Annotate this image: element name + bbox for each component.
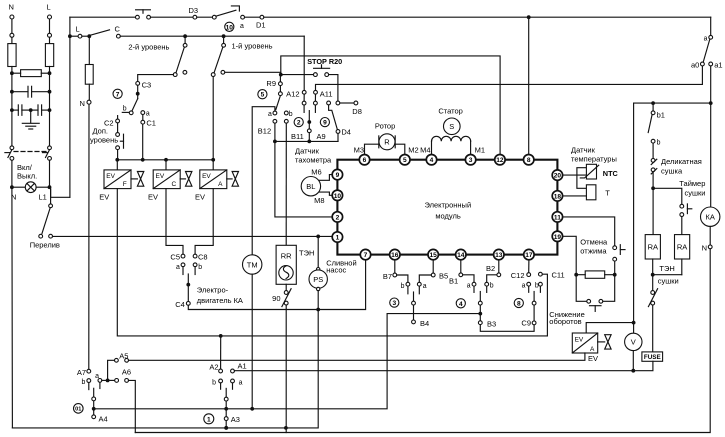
svg-text:A7: A7 xyxy=(77,368,86,377)
wire L riser xyxy=(69,17,71,197)
contact D3 xyxy=(212,15,216,19)
svg-text:А6: А6 xyxy=(122,368,131,377)
pin 7 xyxy=(360,249,370,259)
svg-text:A11: A11 xyxy=(320,90,333,99)
wire pin20 xyxy=(563,174,587,176)
svg-text:M6: M6 xyxy=(311,168,321,177)
terminal N2 xyxy=(10,33,14,37)
svg-text:сушки: сушки xyxy=(658,277,679,286)
svg-text:3: 3 xyxy=(469,157,473,164)
common A3 xyxy=(225,388,227,428)
svg-text:R9: R9 xyxy=(266,79,276,88)
switch id 1 xyxy=(204,414,214,424)
svg-text:b: b xyxy=(212,379,216,386)
wire bus 141 xyxy=(275,140,338,142)
contact L-C blade xyxy=(87,34,91,38)
node a xyxy=(241,15,245,19)
wire pin8 riser xyxy=(528,17,530,154)
svg-text:STOP R20: STOP R20 xyxy=(307,57,342,66)
svg-text:FUSE: FUSE xyxy=(644,354,661,361)
wire common 2 xyxy=(308,111,310,129)
svg-text:6: 6 xyxy=(363,157,367,164)
svg-text:A2: A2 xyxy=(209,363,218,372)
node C1 xyxy=(142,115,144,121)
wire top right corner down xyxy=(710,17,712,35)
pin 6 xyxy=(359,155,369,165)
thermostat T xyxy=(586,185,596,200)
svg-text:EV: EV xyxy=(202,173,211,180)
svg-text:Отмена: Отмена xyxy=(580,237,608,246)
svg-text:L1: L1 xyxy=(39,193,47,202)
svg-text:RA: RA xyxy=(677,243,687,252)
svg-text:N: N xyxy=(80,99,85,108)
svg-text:2-й уровень: 2-й уровень xyxy=(128,42,169,51)
switch id 10 xyxy=(225,22,234,31)
svg-text:A9: A9 xyxy=(317,132,326,141)
svg-text:отжима: отжима xyxy=(580,247,607,256)
wire L column xyxy=(49,67,51,146)
junction stop xyxy=(279,73,283,77)
switch overflow contacts xyxy=(39,234,43,238)
junction xyxy=(48,71,52,75)
svg-text:сушка: сушка xyxy=(661,167,683,176)
svg-text:9: 9 xyxy=(323,120,327,127)
pin 12 xyxy=(495,155,505,165)
svg-text:Деликатная: Деликатная xyxy=(661,157,702,166)
junction pin8 riser xyxy=(527,15,531,19)
wire L1 to L riser xyxy=(51,189,70,197)
wire level2 to C3 xyxy=(138,75,174,82)
EV valve group xyxy=(99,158,547,336)
svg-text:C: C xyxy=(115,25,121,34)
wire A6 to bottom bus xyxy=(129,380,136,432)
svg-text:3: 3 xyxy=(392,300,396,307)
pin 16 xyxy=(390,249,400,259)
svg-text:A: A xyxy=(218,181,223,188)
svg-text:N: N xyxy=(702,243,707,252)
svg-text:20: 20 xyxy=(554,173,562,180)
rotor xyxy=(354,121,419,154)
svg-text:B1: B1 xyxy=(449,277,458,286)
wire level1 riser to EVA xyxy=(212,77,214,160)
wire top line right xyxy=(264,16,711,18)
svg-text:4: 4 xyxy=(430,157,434,164)
svg-text:01: 01 xyxy=(75,407,81,413)
wire pin12 riser xyxy=(281,56,500,155)
lamp power xyxy=(12,186,26,188)
svg-text:T: T xyxy=(605,189,610,198)
node b1 xyxy=(652,105,654,111)
resistor R spin xyxy=(585,271,605,278)
switch power DPST pole1 xyxy=(10,146,14,150)
svg-text:B11: B11 xyxy=(291,132,304,141)
junction xyxy=(48,90,52,94)
pin 8 xyxy=(524,155,534,165)
svg-text:a1: a1 xyxy=(714,61,722,70)
svg-text:RA: RA xyxy=(648,243,658,252)
svg-text:14: 14 xyxy=(457,252,465,259)
STOP R20 and selector block xyxy=(252,36,702,255)
valve EV A xyxy=(212,160,214,170)
wire C11 riser xyxy=(542,274,547,336)
switch id 01 xyxy=(74,404,84,414)
svg-text:F: F xyxy=(123,181,127,188)
junction line B dots xyxy=(224,426,228,430)
svg-text:b1: b1 xyxy=(657,110,665,119)
wire xyxy=(151,16,194,18)
wire pole1 down xyxy=(11,160,13,187)
svg-text:b: b xyxy=(657,140,661,147)
wire N return left side down xyxy=(11,189,14,428)
wire L down xyxy=(49,37,51,43)
wire N down right side xyxy=(135,249,710,433)
svg-text:b: b xyxy=(490,283,494,290)
junction xyxy=(68,34,72,38)
svg-text:M2: M2 xyxy=(408,145,418,154)
wire a-bottom to bus xyxy=(274,123,276,141)
node b xyxy=(651,139,655,143)
mains input filter xyxy=(5,3,332,428)
terminal xyxy=(336,101,340,105)
svg-text:9: 9 xyxy=(336,172,340,179)
svg-text:b: b xyxy=(123,106,127,113)
terminal L xyxy=(48,15,52,19)
wire KA to N xyxy=(709,226,711,245)
svg-text:EV: EV xyxy=(575,336,584,343)
junction xyxy=(10,90,14,94)
svg-text:M8: M8 xyxy=(314,196,324,205)
svg-text:КА: КА xyxy=(706,213,715,222)
wire N column xyxy=(11,67,13,146)
heater RR xyxy=(276,245,296,284)
svg-text:C: C xyxy=(172,181,177,188)
svg-text:8: 8 xyxy=(527,157,531,164)
wire C4 to pin7 xyxy=(188,260,365,310)
pin 15 xyxy=(428,249,438,259)
wire resistor left xyxy=(12,72,21,74)
svg-text:a: a xyxy=(522,283,526,290)
wire EVF return xyxy=(117,189,547,336)
pin 14 xyxy=(456,249,466,259)
svg-text:температуры: температуры xyxy=(571,155,617,164)
svg-text:NTC: NTC xyxy=(603,169,619,178)
relay RA left xyxy=(645,235,660,259)
svg-text:4: 4 xyxy=(459,301,463,308)
svg-text:2: 2 xyxy=(297,120,301,127)
pin 1 xyxy=(332,232,342,242)
pin 17 xyxy=(524,249,534,259)
svg-text:B4: B4 xyxy=(420,319,429,328)
svg-text:N: N xyxy=(9,3,14,12)
svg-text:A4: A4 xyxy=(99,415,108,424)
svg-text:сушки: сушки xyxy=(685,188,706,197)
svg-text:D3: D3 xyxy=(189,6,199,15)
svg-text:13: 13 xyxy=(495,252,503,259)
svg-text:EV: EV xyxy=(106,173,115,180)
pin 18 xyxy=(552,191,562,201)
electronic module xyxy=(332,155,562,260)
junction TM bottom xyxy=(250,407,254,411)
svg-text:A3: A3 xyxy=(231,415,240,424)
svg-text:двигатель КА: двигатель КА xyxy=(197,296,243,305)
svg-text:A1: A1 xyxy=(238,362,247,371)
svg-text:a: a xyxy=(240,23,244,30)
junction A2 riser xyxy=(219,334,223,338)
junction xyxy=(48,185,52,189)
switch id 9 xyxy=(320,118,329,127)
selector 8 xyxy=(528,260,530,273)
pin 13 xyxy=(494,249,504,259)
resistor N dropper xyxy=(88,36,90,64)
wire EVC to C5 xyxy=(166,189,183,255)
svg-text:Выкл.: Выкл. xyxy=(17,172,37,181)
svg-text:19: 19 xyxy=(554,234,562,241)
svg-text:a: a xyxy=(268,111,272,118)
node a1 xyxy=(709,62,713,66)
wire stop to contact9 xyxy=(329,75,338,102)
wire L xyxy=(49,19,51,33)
wire top L line xyxy=(70,16,136,18)
svg-text:8: 8 xyxy=(517,301,521,308)
blade 5 xyxy=(276,96,281,110)
svg-text:Электро-: Электро- xyxy=(197,286,229,295)
svg-text:Статор: Статор xyxy=(438,106,462,115)
svg-text:Доп.: Доп. xyxy=(93,127,108,136)
svg-text:b: b xyxy=(535,283,539,290)
svg-text:a: a xyxy=(146,111,150,118)
bottom selectors xyxy=(383,260,565,336)
pin 11 xyxy=(552,212,562,222)
svg-text:A12: A12 xyxy=(286,90,299,99)
svg-text:D4: D4 xyxy=(341,127,351,136)
svg-text:a: a xyxy=(467,283,471,290)
svg-text:2: 2 xyxy=(336,214,340,221)
svg-text:M4: M4 xyxy=(420,145,430,154)
svg-text:Таймер: Таймер xyxy=(679,179,705,188)
wire A11 to a0 line xyxy=(316,66,703,91)
svg-text:модуль: модуль xyxy=(435,211,461,220)
wire b-bottom to heater RR xyxy=(285,123,287,245)
wire resistor right xyxy=(41,72,49,74)
svg-text:C4: C4 xyxy=(175,300,185,309)
pin 19 xyxy=(552,231,562,241)
pin 9 xyxy=(332,169,342,179)
svg-text:оборотов: оборотов xyxy=(549,317,581,326)
node B11 xyxy=(307,129,311,133)
svg-text:Перелив: Перелив xyxy=(30,241,60,250)
wire a-top to B12 xyxy=(252,107,275,255)
contact a of 7 xyxy=(141,111,145,115)
wire bus A xyxy=(94,314,481,409)
wire BL to pin10 xyxy=(320,192,333,195)
switch id 5 xyxy=(258,90,267,99)
svg-text:насос: насос xyxy=(326,265,346,274)
svg-text:C8: C8 xyxy=(198,253,208,262)
motor V xyxy=(632,321,636,325)
resistor R filter xyxy=(21,70,42,77)
svg-text:PS: PS xyxy=(313,275,323,284)
svg-text:C12: C12 xyxy=(511,271,525,280)
contact 9 blade xyxy=(327,101,331,105)
pin 4 xyxy=(426,155,436,165)
wire N down xyxy=(11,37,13,43)
svg-text:EV: EV xyxy=(588,354,598,363)
choke L1a xyxy=(8,44,16,67)
wire C line xyxy=(120,35,304,37)
terminal N xyxy=(10,15,14,19)
wire overflow stem xyxy=(50,189,52,204)
svg-text:17: 17 xyxy=(525,252,533,259)
wire a1 down xyxy=(710,66,712,207)
switch power DPST pole2 xyxy=(48,146,52,150)
svg-text:16: 16 xyxy=(391,252,399,259)
svg-text:10: 10 xyxy=(334,193,342,200)
node a xyxy=(709,35,713,39)
wire TM down xyxy=(251,274,253,409)
wire common C4 xyxy=(187,274,189,302)
svg-text:EV: EV xyxy=(99,193,109,202)
svg-text:15: 15 xyxy=(430,252,438,259)
relay KA xyxy=(701,207,720,226)
capacitor Cx1 xyxy=(12,91,28,93)
wire overflow to pin1 xyxy=(53,235,333,237)
svg-text:b: b xyxy=(401,283,405,290)
svg-text:5: 5 xyxy=(403,157,407,164)
wire pin11 xyxy=(563,217,615,246)
tachometer sensor xyxy=(295,146,332,205)
terminal L2 xyxy=(48,33,52,37)
wire C1 riser xyxy=(142,124,144,160)
wire xyxy=(197,16,213,18)
junction xyxy=(10,185,14,189)
contact speed reduction xyxy=(576,277,587,302)
svg-text:Датчик: Датчик xyxy=(571,145,596,154)
svg-text:a: a xyxy=(423,283,427,290)
svg-text:C3: C3 xyxy=(142,81,152,90)
svg-text:B5: B5 xyxy=(439,271,448,280)
svg-text:RR: RR xyxy=(281,251,292,260)
relay RA right xyxy=(675,235,690,259)
svg-text:C9: C9 xyxy=(521,318,531,327)
node D8 xyxy=(354,101,358,105)
svg-text:a: a xyxy=(704,36,708,43)
wire V riser xyxy=(633,103,635,321)
spin cancel branch xyxy=(549,217,625,326)
pushbutton STOP xyxy=(283,74,314,76)
svg-text:7: 7 xyxy=(116,91,120,98)
selector 4 xyxy=(460,260,462,273)
svg-text:C11: C11 xyxy=(552,270,565,279)
wire N xyxy=(11,19,13,33)
top programmer lines xyxy=(68,6,711,369)
valve EV F xyxy=(116,160,118,170)
wire a1 branch left xyxy=(634,102,711,104)
junction xyxy=(10,108,14,112)
svg-text:C5: C5 xyxy=(170,253,180,262)
wire EVA to C8 xyxy=(195,189,213,255)
pin 20 xyxy=(552,170,562,180)
contact extra level xyxy=(117,123,119,133)
svg-text:EV: EV xyxy=(148,193,158,202)
svg-text:D8: D8 xyxy=(352,107,362,116)
svg-text:A: A xyxy=(590,346,595,353)
wire BL to pin9 xyxy=(320,175,333,181)
svg-text:M1: M1 xyxy=(475,145,485,154)
capacitor Cy2 xyxy=(31,109,38,111)
svg-text:b: b xyxy=(82,379,86,386)
wire N control down to A7 xyxy=(88,104,90,369)
svg-text:1-й уровень: 1-й уровень xyxy=(232,42,273,51)
svg-text:5: 5 xyxy=(261,92,265,99)
svg-text:D1: D1 xyxy=(256,21,266,30)
contact 7 blade xyxy=(132,99,138,111)
wire L-C line xyxy=(70,35,78,37)
wire to D8 xyxy=(340,102,354,104)
svg-text:L: L xyxy=(76,25,80,34)
svg-text:L: L xyxy=(47,3,51,12)
svg-text:Ротор: Ротор xyxy=(375,121,395,130)
contact drying timer xyxy=(680,204,684,208)
valve EV A2 xyxy=(586,323,633,333)
wire PS return xyxy=(12,291,318,428)
svg-text:R: R xyxy=(384,138,390,147)
bottom components row xyxy=(12,235,365,433)
terminal N right xyxy=(708,245,712,249)
wire timer branch xyxy=(653,188,682,204)
contact a blade xyxy=(703,39,710,62)
svg-text:7: 7 xyxy=(364,252,368,259)
pin 10 xyxy=(332,190,342,200)
svg-text:M3: M3 xyxy=(354,145,364,154)
switch id 7 xyxy=(113,89,122,98)
mechanical link dashed xyxy=(14,151,47,153)
svg-text:S: S xyxy=(449,122,454,131)
capacitor Cy1 xyxy=(12,109,18,111)
wire RA bottoms xyxy=(652,259,654,291)
junction xyxy=(29,108,33,112)
timer motor TM xyxy=(243,255,262,274)
wire level1 to stop junction xyxy=(225,72,281,74)
wire EV A2 bottom to A5 line xyxy=(129,353,585,360)
thermal cutout xyxy=(651,291,655,295)
svg-text:BL: BL xyxy=(306,182,315,191)
junction xyxy=(10,71,14,75)
svg-text:1: 1 xyxy=(207,416,211,423)
svg-text:тахометра: тахометра xyxy=(295,156,332,165)
wire pin19 xyxy=(563,236,577,273)
svg-text:a0: a0 xyxy=(691,61,699,70)
motor selector C5 C8 xyxy=(181,254,185,258)
junction b1 xyxy=(651,101,655,105)
svg-text:B12: B12 xyxy=(258,126,271,135)
blade b1 xyxy=(648,115,652,133)
svg-text:b: b xyxy=(198,264,202,271)
ground xyxy=(30,110,32,123)
svg-text:1: 1 xyxy=(336,235,340,242)
svg-text:a: a xyxy=(176,264,180,271)
right power column xyxy=(129,17,723,432)
junction a1 xyxy=(709,101,713,105)
svg-text:B2: B2 xyxy=(486,264,495,273)
node A4 column xyxy=(93,388,95,415)
svg-text:B3: B3 xyxy=(487,320,496,329)
wire B3 to C9 xyxy=(480,325,534,332)
wire to module pin2 xyxy=(275,141,332,217)
svg-text:b: b xyxy=(289,111,293,118)
contact spin cancel xyxy=(613,246,617,250)
svg-text:10: 10 xyxy=(226,24,234,31)
junction xyxy=(48,108,52,112)
